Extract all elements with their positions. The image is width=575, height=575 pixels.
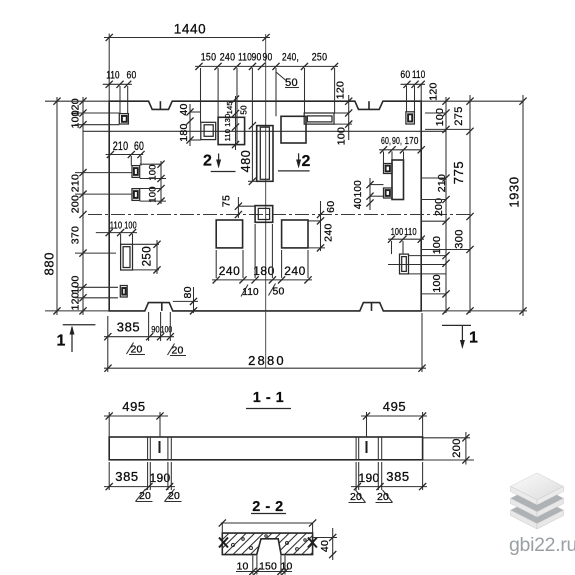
svg-text:385: 385 (115, 469, 139, 484)
svg-text:20: 20 (168, 490, 180, 502)
svg-text:60: 60 (325, 201, 337, 213)
svg-text:100: 100 (391, 226, 404, 238)
svg-text:495: 495 (383, 399, 407, 414)
svg-text:145: 145 (225, 101, 234, 114)
svg-text:40: 40 (353, 198, 364, 210)
svg-text:20: 20 (350, 491, 362, 503)
svg-text:90: 90 (263, 52, 273, 64)
svg-text:110: 110 (238, 52, 252, 64)
svg-text:210: 210 (113, 141, 129, 153)
svg-text:50: 50 (272, 285, 284, 297)
svg-text:190: 190 (150, 471, 171, 485)
svg-text:180: 180 (178, 123, 190, 141)
svg-text:250: 250 (141, 246, 153, 266)
svg-text:275: 275 (453, 106, 465, 126)
svg-text:480: 480 (239, 150, 253, 173)
svg-text:300: 300 (454, 229, 466, 249)
svg-text:1: 1 (469, 330, 478, 347)
svg-text:1 - 1: 1 - 1 (253, 390, 285, 406)
svg-text:80: 80 (182, 286, 194, 298)
svg-text:20: 20 (130, 343, 142, 355)
svg-text:100: 100 (335, 127, 347, 145)
svg-text:495: 495 (122, 399, 146, 414)
svg-text:20: 20 (377, 491, 389, 503)
svg-text:775: 775 (451, 161, 466, 185)
svg-text:50: 50 (239, 105, 248, 115)
svg-text:100: 100 (353, 180, 364, 198)
svg-text:2880: 2880 (248, 353, 286, 368)
svg-text:130: 130 (223, 114, 232, 127)
svg-text:110: 110 (242, 287, 259, 298)
svg-text:90,: 90, (392, 135, 402, 147)
svg-text:120: 120 (427, 82, 439, 100)
svg-text:210: 210 (436, 174, 448, 192)
svg-text:240,: 240, (282, 52, 299, 64)
svg-text:880: 880 (42, 252, 57, 276)
svg-text:100: 100 (431, 274, 443, 292)
svg-text:370: 370 (69, 226, 81, 244)
svg-text:170: 170 (405, 135, 419, 147)
svg-text:240: 240 (219, 264, 241, 278)
svg-text:210: 210 (69, 174, 81, 192)
svg-text:40: 40 (319, 540, 331, 552)
svg-text:240: 240 (220, 52, 236, 64)
svg-text:150: 150 (201, 52, 217, 64)
svg-text:190: 190 (359, 471, 380, 485)
svg-text:60: 60 (400, 69, 410, 81)
svg-text:60,: 60, (381, 135, 391, 147)
svg-text:385: 385 (117, 320, 141, 335)
svg-text:2: 2 (302, 153, 311, 170)
svg-text:110: 110 (223, 129, 232, 142)
svg-text:120: 120 (334, 81, 346, 99)
svg-text:2 - 2: 2 - 2 (252, 499, 284, 515)
svg-text:110: 110 (106, 70, 120, 82)
svg-text:240: 240 (284, 264, 306, 278)
svg-text:200: 200 (433, 198, 445, 216)
svg-text:gbi22.ru: gbi22.ru (509, 534, 575, 556)
svg-text:20: 20 (171, 344, 183, 356)
svg-text:75: 75 (221, 195, 233, 207)
svg-text:150: 150 (259, 560, 277, 572)
svg-text:385: 385 (386, 469, 410, 484)
svg-text:240: 240 (322, 223, 334, 241)
svg-text:1440: 1440 (174, 21, 206, 36)
svg-text:2: 2 (203, 153, 212, 170)
svg-text:20: 20 (139, 490, 151, 502)
svg-text:100: 100 (431, 236, 443, 254)
svg-text:1: 1 (57, 333, 66, 350)
svg-text:200: 200 (451, 438, 463, 458)
svg-text:10: 10 (236, 560, 248, 572)
svg-text:90: 90 (252, 52, 262, 64)
svg-text:180: 180 (253, 264, 275, 278)
svg-text:1930: 1930 (507, 176, 522, 207)
svg-text:250: 250 (312, 52, 328, 64)
svg-text:60: 60 (134, 141, 144, 153)
svg-text:110: 110 (412, 69, 426, 81)
svg-text:60: 60 (127, 70, 137, 82)
svg-text:100: 100 (434, 108, 446, 126)
